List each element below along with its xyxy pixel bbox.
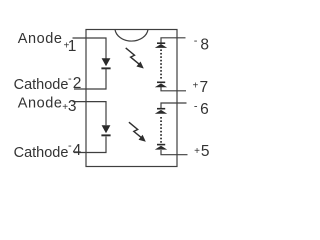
- svg-text:+: +: [194, 146, 200, 157]
- svg-text:3: 3: [68, 98, 77, 115]
- wire pin 6: [161, 103, 187, 108]
- photodiode PD2b triangle: [155, 146, 167, 150]
- photodiode stack dotted link channel 2: [160, 117, 162, 143]
- light arrow channel 1: [126, 48, 140, 65]
- photodiode PD2b cathode bar: [157, 144, 165, 146]
- wire pin 7: [161, 87, 186, 91]
- light arrowhead channel 2: [139, 135, 146, 142]
- package pin-1 notch: [115, 30, 148, 42]
- svg-text:Anode: Anode: [18, 31, 63, 47]
- LED D2 cathode bar: [101, 134, 110, 136]
- LED D1 triangle: [102, 58, 111, 66]
- svg-text:Cathode: Cathode: [14, 145, 69, 161]
- photodiode PD1a triangle: [155, 44, 167, 48]
- svg-text:-: -: [68, 140, 72, 152]
- svg-text:-: -: [68, 73, 72, 85]
- wire pin 3 (anode 2): [73, 102, 107, 126]
- wire pin 1 (anode 1): [73, 38, 107, 59]
- wire pin 2 (cathode 1): [74, 69, 106, 89]
- wire pin 8: [161, 38, 186, 43]
- wire pin 5: [161, 150, 188, 155]
- svg-text:6: 6: [200, 101, 209, 118]
- light arrowhead channel 1: [136, 62, 143, 69]
- svg-text:Anode: Anode: [18, 95, 63, 111]
- svg-text:1: 1: [68, 38, 77, 55]
- svg-text:-: -: [194, 35, 198, 47]
- photodiode PD2a cathode bar: [157, 108, 165, 110]
- package outline U1: [86, 30, 177, 167]
- svg-text:7: 7: [200, 79, 209, 96]
- svg-text:-: -: [194, 101, 198, 113]
- photodiode PD2a triangle: [155, 110, 167, 114]
- photodiode PD1a cathode bar: [157, 42, 165, 44]
- svg-text:4: 4: [73, 142, 82, 159]
- svg-text:5: 5: [201, 143, 210, 160]
- wire pin 4 (cathode 2): [74, 137, 106, 153]
- svg-text:+: +: [193, 80, 199, 91]
- photodiode PD1b cathode bar: [157, 82, 165, 84]
- svg-text:8: 8: [200, 37, 209, 54]
- photodiode stack dotted link channel 1: [160, 49, 162, 78]
- svg-text:Cathode: Cathode: [14, 77, 69, 93]
- light arrow channel 2: [129, 122, 142, 138]
- photodiode PD1b triangle: [155, 83, 167, 87]
- svg-text:2: 2: [73, 75, 82, 92]
- LED D1 cathode bar: [101, 67, 110, 69]
- LED D2 triangle: [102, 125, 111, 133]
